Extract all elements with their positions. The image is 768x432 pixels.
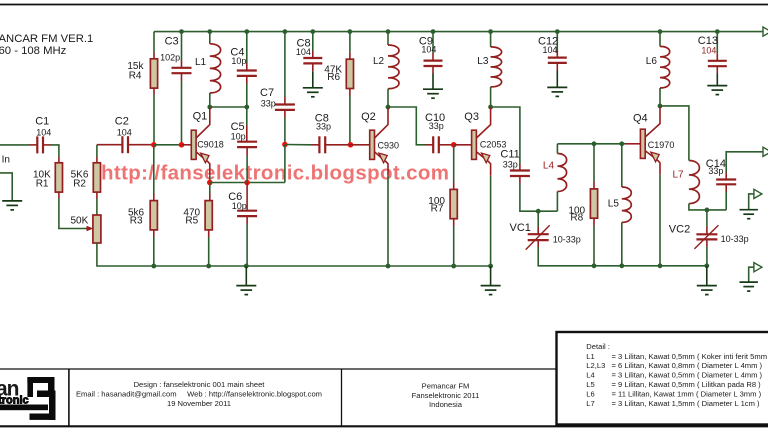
- capacitor C5: [237, 142, 257, 147]
- wire collector node line: [210, 106, 247, 108]
- trimmer VC2: [696, 234, 717, 239]
- capacitor C14: [716, 180, 736, 185]
- wire R6 to Q2 base: [349, 96, 351, 145]
- resistor R6: [346, 59, 353, 88]
- wire emitter node to R5: [209, 183, 211, 194]
- svg-text:33p: 33p: [429, 121, 444, 131]
- title block divider 1: [68, 369, 70, 426]
- connector VCC right edge: [763, 27, 768, 36]
- wire R2 to pot: [96, 199, 98, 216]
- svg-text:R4: R4: [129, 70, 142, 81]
- wire R5 to ground bus: [208, 237, 210, 266]
- wire Q2 base pin: [351, 144, 370, 146]
- capacitor C7: [275, 105, 295, 110]
- wire C8-104 to ground: [312, 71, 314, 87]
- potentiometer 50K: [93, 215, 101, 243]
- svg-text:Design : fanselektronic 001 ma: Design : fanselektronic 001 main sheet: [134, 380, 266, 389]
- wire node B: [96, 145, 98, 157]
- svg-text:= 11 Lillitan, Kawat 1mm ( Dia: = 11 Lillitan, Kawat 1mm ( Diameter L 3m…: [612, 389, 762, 398]
- transistor Q4: [640, 106, 660, 175]
- wire R6 bottom lead: [349, 89, 351, 96]
- resistor R4: [150, 59, 157, 88]
- wire L2 to node: [387, 89, 389, 107]
- node Q1 emitter: [207, 180, 213, 186]
- connector gnd pin 1: [754, 189, 762, 198]
- svg-text:10p: 10p: [231, 56, 246, 66]
- wire VC2 top lead: [706, 227, 708, 234]
- svg-text:L6: L6: [586, 389, 594, 398]
- wire VC1 top: [537, 211, 539, 227]
- wire C10 left lead: [425, 144, 433, 146]
- wire rail to R6: [349, 32, 351, 53]
- svg-text:10-33p: 10-33p: [721, 234, 749, 244]
- svg-text:Q3: Q3: [464, 111, 479, 123]
- wire C13 bottom lead: [716, 66, 718, 73]
- capacitor C3: [172, 68, 192, 73]
- node VC2 tap: [705, 208, 710, 213]
- wire Q2 emitter net: [387, 176, 389, 266]
- wire C6 top lead: [246, 183, 248, 211]
- wire Q1 emitter net: [209, 176, 211, 183]
- svg-text:33p: 33p: [316, 122, 331, 132]
- title block top line: [0, 368, 768, 370]
- resistor R7: [450, 189, 457, 218]
- node rail L3: [488, 29, 493, 34]
- wire C12 top lead: [556, 50, 558, 57]
- svg-text:R5: R5: [185, 215, 198, 226]
- capacitor C6: [237, 211, 257, 216]
- resistor R3: [150, 201, 157, 230]
- capacitor C9 104: [424, 61, 443, 66]
- wire C5 bottom lead: [246, 147, 248, 155]
- svg-text:Indonesia: Indonesia: [429, 400, 463, 409]
- node Q3 collector: [488, 105, 493, 110]
- svg-text:104: 104: [701, 45, 716, 55]
- svg-text:Q4: Q4: [633, 113, 648, 125]
- node Q2 base junction: [348, 142, 354, 148]
- svg-text:Fanselektronic 2011: Fanselektronic 2011: [412, 391, 480, 400]
- wire bus ground drop: [245, 266, 247, 285]
- svg-text:Pemancar FM: Pemancar FM: [422, 381, 470, 390]
- svg-text:L7: L7: [586, 399, 594, 408]
- wire pot to ground bus: [97, 243, 154, 266]
- svg-text:VC1: VC1: [510, 222, 531, 234]
- capacitor C8 104: [303, 58, 322, 63]
- svg-text:Email : hasanadit@gmail.com: Email : hasanadit@gmail.com Web : http:/…: [76, 389, 322, 398]
- inductor L5: [622, 187, 632, 222]
- wire R1 top lead: [58, 157, 60, 163]
- wire audio input: [0, 144, 30, 146]
- svg-text:102p: 102p: [160, 52, 180, 62]
- wire C4 bottom lead: [246, 76, 248, 84]
- ground bus: [236, 286, 256, 295]
- wire rail to L1: [209, 32, 211, 44]
- wire C8-104 bottom lead: [312, 63, 314, 71]
- wire R8 to bus2: [593, 226, 595, 266]
- title block divider 3: [341, 369, 343, 426]
- svg-text:= 3 Lilitan, Kawat 0,5mm ( Ko: = 3 Lilitan, Kawat 0,5mm ( Koker inti fe…: [612, 352, 768, 361]
- node rail C9: [431, 29, 436, 34]
- wire C9 to ground: [432, 74, 434, 89]
- wire Q3 node elbow: [491, 107, 520, 164]
- node R8 top: [592, 141, 597, 146]
- logo fans elektronic: [0, 377, 56, 420]
- wire R7 to ground bus: [453, 226, 455, 266]
- wire node to C5: [246, 107, 248, 126]
- capacitor C13 104: [708, 61, 727, 66]
- wire ground bus: [154, 265, 491, 267]
- svg-text:L3: L3: [477, 56, 489, 67]
- node rail C4: [244, 29, 249, 34]
- wire C12 to ground: [556, 71, 558, 88]
- wire L4 line to Q4: [557, 143, 625, 145]
- wire junction to R7: [453, 145, 455, 183]
- wire gnd pin 2: [749, 267, 754, 282]
- svg-text:50K: 50K: [71, 216, 89, 227]
- svg-text:33p: 33p: [708, 166, 723, 176]
- wire C10 right lead: [439, 144, 454, 146]
- ground bus2: [697, 286, 717, 295]
- wire junction down to emitter line: [284, 145, 286, 183]
- inductor L7: [689, 161, 700, 204]
- wire C5 to emitter line: [246, 155, 248, 183]
- wire L4 bottom stub: [556, 192, 558, 212]
- svg-text:Q1: Q1: [193, 111, 208, 123]
- inductor L2: [388, 45, 399, 89]
- trimmer VC1: [528, 234, 549, 240]
- wire bus2: [594, 265, 707, 267]
- wire R8 top lead: [593, 182, 595, 189]
- ground bus right: [481, 286, 501, 295]
- svg-text:C1: C1: [35, 115, 49, 127]
- wire VC2 top: [706, 210, 708, 227]
- wire C11 bottom lead: [519, 176, 521, 184]
- svg-text:R3: R3: [130, 215, 143, 226]
- connector gnd pin 2: [754, 263, 762, 272]
- wire C14 to output: [726, 152, 763, 173]
- node bus Q2 emitter: [386, 264, 391, 269]
- wire C3 top lead: [181, 61, 183, 68]
- wire rail to L2: [387, 32, 389, 45]
- svg-text:33p: 33p: [261, 99, 276, 109]
- capacitor C2: [122, 136, 128, 153]
- svg-text:L1: L1: [195, 57, 207, 68]
- node bus R3: [151, 264, 156, 269]
- wire C1 right lead: [43, 144, 51, 146]
- wire rail to C12: [556, 32, 558, 50]
- wire C6 to ground bus: [246, 224, 248, 266]
- node Q2 collector: [386, 105, 391, 110]
- svg-text:VC2: VC2: [669, 223, 690, 235]
- wire C6 bottom lead: [246, 216, 248, 224]
- wire C11 top lead: [519, 164, 521, 171]
- transistor Q1: [191, 107, 210, 176]
- inductor L6: [660, 46, 670, 88]
- wire rail to C7: [284, 32, 286, 97]
- pot wiper arrow: [86, 228, 88, 230]
- node Q1 collector: [207, 105, 212, 110]
- wire C12 bottom lead: [556, 63, 558, 71]
- ground pin 2: [740, 282, 758, 291]
- wire C4 to node: [246, 84, 248, 108]
- wire C1 left lead: [30, 144, 37, 146]
- wire VCC rail: [154, 31, 763, 33]
- svg-text:33p: 33p: [503, 160, 518, 170]
- wire L4 top stub: [556, 144, 558, 154]
- svg-text:= 3 Lilitan, Kawat 1,5mm ( Dia: = 3 Lilitan, Kawat 1,5mm ( Diameter L 1c…: [612, 399, 761, 408]
- wire rail to C8-104: [312, 32, 314, 51]
- svg-text:C1970: C1970: [648, 140, 675, 150]
- wire L1 to node: [209, 93, 211, 107]
- wire C14 top: [725, 192, 727, 210]
- node C4 C5: [244, 105, 249, 110]
- svg-text:ANCAR FM VER.1: ANCAR FM VER.1: [0, 33, 93, 45]
- wire input ground stub: [0, 173, 12, 201]
- wire R3 bottom lead: [153, 230, 155, 237]
- svg-text:ktronic: ktronic: [0, 395, 29, 407]
- wire R6 top lead: [349, 52, 351, 59]
- svg-text:C9018: C9018: [197, 140, 224, 150]
- wire C7 bottom lead: [284, 110, 286, 118]
- node rail C8: [310, 29, 315, 34]
- wire R5 bottom lead: [208, 230, 210, 237]
- inductor L4: [557, 154, 566, 192]
- wire R8 bottom lead: [593, 218, 595, 225]
- node rail C12: [555, 29, 560, 34]
- svg-text:104: 104: [421, 44, 436, 54]
- node L5 top: [619, 141, 624, 146]
- wire R7 top lead: [453, 183, 455, 190]
- wire rail to R4: [153, 32, 155, 53]
- wire C8-104 top lead: [312, 51, 314, 58]
- wire R8 top: [593, 144, 595, 182]
- ground pin 1: [740, 210, 758, 219]
- svg-text:10-33p: 10-33p: [553, 235, 581, 245]
- svg-text:R7: R7: [431, 204, 444, 215]
- wire C8-33 right lead: [325, 144, 350, 146]
- wire R3 top lead: [153, 194, 155, 201]
- wire R4 bottom lead: [153, 88, 155, 94]
- svg-text:19 November 2011: 19 November 2011: [167, 399, 231, 408]
- transistor Q2: [370, 107, 388, 176]
- node rail L6: [658, 29, 663, 34]
- wire base line segment: [154, 144, 182, 146]
- ground C12: [547, 87, 567, 96]
- resistor R5: [205, 201, 212, 230]
- node Q1 base junction C3: [179, 142, 185, 148]
- wire L5 to bus2: [621, 222, 623, 265]
- svg-text:60 - 108 MHz: 60 - 108 MHz: [0, 45, 67, 57]
- svg-text:C2: C2: [115, 115, 129, 127]
- svg-text:104: 104: [36, 127, 51, 137]
- svg-text:10p: 10p: [232, 201, 247, 211]
- capacitor C1: [37, 136, 43, 153]
- inductor L1: [210, 44, 221, 93]
- wire bus right ground drop: [490, 266, 492, 285]
- wire VC2 bottom lead: [706, 239, 708, 246]
- wire C7 to junction: [284, 118, 286, 145]
- connector RF out: [763, 147, 768, 156]
- node Q1 base junction R4: [151, 142, 157, 148]
- wire R7 bottom lead: [453, 219, 455, 226]
- wire C8-33 left: [285, 144, 312, 146]
- wire R3 to ground bus: [153, 237, 155, 266]
- ground C8: [303, 88, 323, 97]
- svg-text:L6: L6: [646, 56, 658, 67]
- node bus R7: [451, 264, 456, 269]
- wire L7 to tank line: [689, 204, 726, 210]
- wire Q4 base pin: [625, 143, 640, 145]
- wire C2 left lead: [97, 144, 123, 146]
- svg-text:= 3 Lilitan, Kawat 0,5mm ( Di: = 3 Lilitan, Kawat 0,5mm ( Diameter L 4m…: [612, 370, 763, 379]
- svg-text:R2: R2: [73, 179, 86, 190]
- node bus2 L5: [619, 263, 624, 268]
- wire C9 top lead: [432, 53, 434, 60]
- wire C9 bottom lead: [432, 66, 434, 74]
- resistor R2: [93, 163, 100, 192]
- capacitor C11: [510, 171, 530, 177]
- svg-text:L4: L4: [586, 370, 594, 379]
- title block bottom line: [0, 425, 768, 427]
- node Q3 base junction: [451, 142, 457, 148]
- wire C8-33 left lead: [312, 144, 320, 146]
- svg-text:L4: L4: [543, 160, 555, 171]
- wire R1 to pot wiper: [59, 199, 86, 229]
- ground C13: [707, 86, 727, 95]
- node C7 C8 junction: [282, 142, 288, 148]
- wire R4 top lead: [153, 53, 155, 59]
- node VC1 tap: [536, 209, 541, 214]
- svg-text:10p: 10p: [231, 131, 246, 141]
- svg-text:L7: L7: [673, 170, 685, 181]
- wire C11 to tank line: [520, 184, 558, 212]
- wire C3 bottom lead: [181, 73, 183, 81]
- wire VC1 to bus2: [538, 247, 594, 266]
- svg-text:L5: L5: [608, 198, 620, 209]
- capacitor C10: [433, 136, 439, 153]
- node bus2 VC2: [704, 263, 709, 268]
- wire C4 top lead: [246, 63, 248, 70]
- wire VC2 to bus2: [706, 247, 708, 266]
- wire C5 top lead: [246, 126, 248, 142]
- svg-text:104: 104: [117, 127, 132, 137]
- wire C3 to base line: [181, 81, 183, 145]
- node rail C13: [715, 29, 720, 34]
- svg-text:C7: C7: [260, 87, 274, 99]
- wire base pin Q1: [182, 144, 192, 146]
- node C5 C6 emitter: [244, 180, 250, 186]
- wire R2 top lead: [96, 157, 98, 163]
- wire VC1 top lead: [537, 227, 539, 234]
- resistor R8: [590, 189, 597, 218]
- capacitor C12 104: [548, 58, 567, 63]
- wire L6 to node: [659, 88, 661, 106]
- wire Q3 base pin: [454, 144, 472, 146]
- svg-text:R6: R6: [327, 72, 340, 83]
- node bus R5: [206, 264, 211, 269]
- wire rail to L6: [659, 32, 661, 47]
- node bus2 R8: [592, 263, 597, 268]
- node rail C3: [179, 29, 184, 34]
- node bus2 Q4 emitter: [658, 263, 663, 268]
- wire C13 to ground: [716, 74, 718, 86]
- wire rail to C9: [432, 32, 434, 53]
- svg-text:Detail :: Detail :: [586, 342, 610, 351]
- wire rail to L3: [490, 32, 492, 47]
- node rail L2: [386, 29, 391, 34]
- wire L3 to node: [490, 87, 492, 107]
- svg-text:L1: L1: [586, 352, 594, 361]
- wire Q4 node elbow: [660, 106, 689, 161]
- wire bus2 ground drop: [706, 266, 708, 285]
- node Q4 collector: [658, 104, 663, 109]
- svg-text:= 9 Lilitan, Kawat 0,5mm ( Li: = 9 Lilitan, Kawat 0,5mm ( Lilitkan pada…: [612, 380, 762, 389]
- svg-text:L2,L3: L2,L3: [586, 361, 605, 370]
- wire Q4 emitter net: [659, 175, 661, 266]
- ground C9: [423, 89, 443, 98]
- inductor L3: [491, 47, 502, 87]
- wire R5 top lead: [209, 194, 211, 201]
- svg-text:R8: R8: [570, 213, 583, 224]
- wire C1 to R1: [51, 145, 59, 157]
- svg-text:In: In: [2, 154, 10, 165]
- wire rail to C3: [181, 32, 183, 61]
- svg-text:104: 104: [543, 45, 558, 55]
- wire base node to R3: [153, 145, 155, 194]
- svg-text:R1: R1: [36, 179, 49, 190]
- ground input: [2, 201, 22, 210]
- wire R1 bottom lead: [58, 192, 60, 198]
- wire C14 top lead: [725, 173, 727, 180]
- sheet top border: [0, 4, 768, 6]
- wire Q2 node elbow: [388, 107, 425, 145]
- wire R4 to base line: [153, 95, 155, 145]
- node bus ground junction: [488, 264, 493, 269]
- capacitor C4: [237, 71, 257, 76]
- wire R2 bottom lead: [96, 192, 98, 198]
- node bus C6: [244, 264, 249, 269]
- detail box: [557, 332, 768, 425]
- svg-text:L5: L5: [586, 380, 594, 389]
- node rail R6: [348, 29, 353, 34]
- svg-text:= 6 Lilitan, Kawat 0,8mm ( Di: = 6 Lilitan, Kawat 0,8mm ( Diameter L 4m…: [612, 361, 763, 370]
- wire gnd pin 1: [749, 194, 754, 209]
- wire C13 top lead: [716, 53, 718, 60]
- wire Q3 emitter net: [490, 176, 492, 266]
- svg-text:104: 104: [296, 47, 311, 57]
- resistor R1: [55, 163, 62, 192]
- wire rail to C4: [246, 32, 248, 63]
- wire rail to C13: [716, 32, 718, 54]
- wire C7 top lead: [284, 97, 286, 104]
- svg-text:C930: C930: [378, 141, 400, 151]
- transistor Q3: [472, 107, 491, 176]
- wire emitter line: [210, 182, 285, 184]
- svg-text:C3: C3: [165, 36, 179, 48]
- svg-text:L2: L2: [373, 56, 385, 67]
- node rail L1: [207, 29, 212, 34]
- capacitor C8 33p: [319, 136, 325, 153]
- wire VC1 bottom lead: [537, 240, 539, 247]
- svg-text:Q2: Q2: [361, 111, 376, 123]
- wire L5 top stub: [621, 144, 623, 187]
- wire C2 right lead: [128, 144, 154, 146]
- node rail C7: [283, 29, 288, 34]
- wire C14 bottom lead: [725, 185, 727, 192]
